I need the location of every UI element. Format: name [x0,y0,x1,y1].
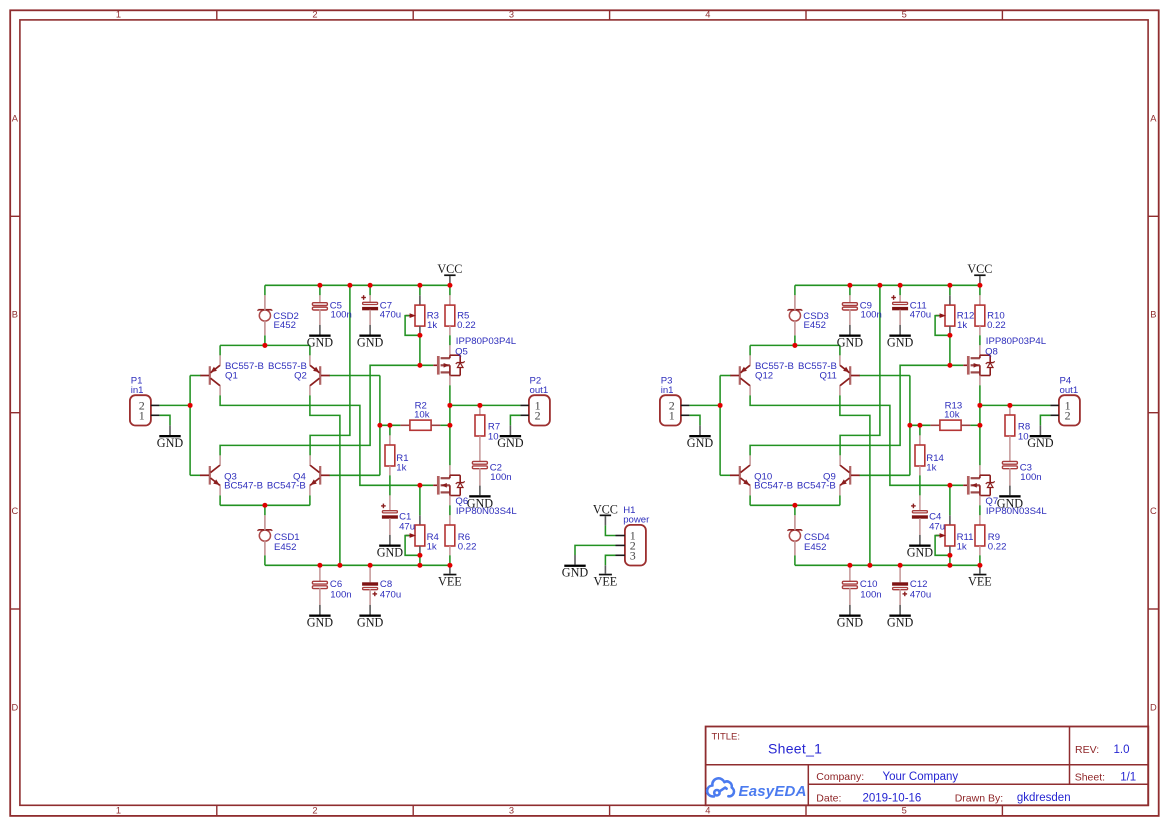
svg-text:TITLE:: TITLE: [712,732,741,743]
svg-text:Q12: Q12 [755,371,773,382]
svg-text:100n: 100n [331,310,352,321]
svg-text:10k: 10k [414,410,430,421]
svg-text:gkdresden: gkdresden [1017,792,1071,804]
power flag VCC at H1 [593,502,618,525]
svg-text:10: 10 [1018,431,1029,442]
wire H1 pin1 to VCC [605,525,615,535]
svg-text:4: 4 [705,805,710,815]
svg-text:1: 1 [669,409,675,423]
svg-text:Drawn By:: Drawn By: [955,793,1003,805]
svg-text:out1: out1 [1060,385,1079,396]
svg-text:1: 1 [116,10,121,20]
svg-text:100n: 100n [860,589,881,600]
svg-text:470u: 470u [380,589,401,600]
svg-text:3: 3 [630,548,636,562]
svg-text:47u: 47u [929,522,945,533]
svg-text:1: 1 [116,805,121,815]
svg-text:0.22: 0.22 [987,320,1006,331]
svg-text:5: 5 [902,10,907,20]
svg-text:470u: 470u [380,310,401,321]
svg-text:100n: 100n [330,589,351,600]
svg-text:1/1: 1/1 [1120,771,1136,783]
svg-text:in1: in1 [131,385,144,396]
svg-text:3: 3 [509,805,514,815]
svg-text:IPP80P03P4L: IPP80P03P4L [986,336,1047,347]
svg-text:1.0: 1.0 [1114,744,1130,756]
svg-text:1k: 1k [427,320,437,331]
wire H1 pin2 to ground [575,545,616,555]
svg-text:Company:: Company: [816,771,864,783]
svg-text:100n: 100n [861,310,882,321]
svg-text:E452: E452 [804,542,826,553]
svg-text:EasyEDA: EasyEDA [739,783,807,800]
power flag VEE at H1 [594,565,618,588]
svg-text:IPP80P03P4L: IPP80P03P4L [456,336,517,347]
svg-text:3: 3 [509,10,514,20]
svg-text:E452: E452 [804,320,826,331]
svg-text:Q11: Q11 [819,371,836,382]
svg-text:0.22: 0.22 [457,320,476,331]
svg-text:470u: 470u [910,589,931,600]
svg-text:B: B [12,310,18,320]
svg-text:out1: out1 [530,385,549,396]
right channel graphics [660,262,1080,629]
svg-text:A: A [1150,113,1157,123]
svg-text:Q5: Q5 [455,346,468,357]
svg-text:D: D [1150,702,1157,712]
svg-text:10k: 10k [944,410,960,421]
svg-text:C: C [1150,506,1157,516]
svg-text:100n: 100n [490,472,511,483]
svg-text:E452: E452 [274,320,296,331]
svg-text:2: 2 [312,805,317,815]
svg-text:BC547-B: BC547-B [754,481,793,492]
svg-text:1k: 1k [926,463,936,474]
svg-text:Q8: Q8 [985,346,998,357]
connector H1 power [625,525,646,566]
svg-text:0.22: 0.22 [458,542,477,553]
svg-text:B: B [1150,310,1156,320]
svg-text:1k: 1k [957,320,967,331]
title block [706,727,1149,806]
svg-text:D: D [12,702,19,712]
svg-text:47u: 47u [399,522,415,533]
svg-text:Q1: Q1 [225,371,238,382]
svg-text:BC547-B: BC547-B [224,481,263,492]
svg-text:1k: 1k [396,463,406,474]
pin H1-2 [616,544,625,546]
pin H1-1 [616,535,625,537]
svg-text:Date:: Date: [816,792,841,804]
ground at H1 [562,555,589,580]
svg-text:Sheet:: Sheet: [1075,772,1105,784]
svg-text:A: A [12,113,19,123]
svg-text:2019-10-16: 2019-10-16 [863,792,922,804]
svg-text:470u: 470u [910,310,931,321]
wire H1 pin3 to VEE [605,555,615,565]
svg-text:0.22: 0.22 [988,542,1007,553]
svg-text:Q2: Q2 [294,371,307,382]
svg-text:1k: 1k [427,542,437,553]
svg-text:IPP80N03S4L: IPP80N03S4L [986,506,1047,517]
svg-text:4: 4 [705,10,710,20]
left channel graphics [130,262,550,629]
svg-text:BC547-B: BC547-B [797,481,836,492]
svg-text:power: power [623,514,650,525]
svg-text:2: 2 [312,10,317,20]
svg-text:in1: in1 [661,385,674,396]
svg-text:BC547-B: BC547-B [267,481,306,492]
svg-text:10: 10 [488,431,499,442]
left channel labels [131,300,548,600]
svg-text:100n: 100n [1020,472,1041,483]
svg-text:1: 1 [139,409,145,423]
svg-text:Sheet_1: Sheet_1 [768,741,822,757]
svg-text:IPP80N03S4L: IPP80N03S4L [456,506,517,517]
right channel labels [661,300,1078,600]
svg-text:C: C [12,506,19,516]
svg-text:REV:: REV: [1075,744,1099,756]
svg-text:5: 5 [902,805,907,815]
svg-text:2: 2 [535,409,541,423]
EasyEDA logo [707,778,734,796]
pin H1-3 [616,554,625,556]
svg-text:E452: E452 [274,542,296,553]
svg-text:1k: 1k [957,542,967,553]
svg-text:2: 2 [1065,409,1071,423]
svg-text:Your Company: Your Company [883,771,959,783]
